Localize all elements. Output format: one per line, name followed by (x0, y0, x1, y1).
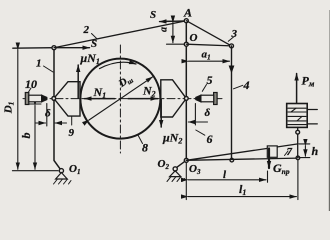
svg-text:1: 1 (36, 58, 42, 70)
dimension a1 (189, 60, 230, 62)
right jaw on lever 6 (161, 80, 187, 117)
svg-text:10: 10 (25, 77, 37, 91)
wire horizontal center axis (dash-dot) (23, 98, 222, 100)
link spring to lever 7 (297, 127, 299, 157)
label 6 (196, 130, 205, 135)
label 4 (234, 85, 243, 89)
ground O1 (59, 169, 63, 173)
adjusting screw 5 (196, 93, 217, 105)
link 3 (A to right node) (186, 21, 231, 46)
dimension b (34, 106, 36, 170)
force muN1 arrow (77, 65, 79, 98)
adjusting screw 10 (25, 93, 47, 105)
svg-text:a: a (159, 27, 170, 32)
dimension h (299, 144, 310, 158)
lever 7 bottom edge (186, 158, 298, 160)
force G_pr arrow (268, 149, 270, 169)
svg-text:9: 9 (69, 127, 75, 139)
svg-text:4: 4 (243, 78, 250, 92)
band 2 (rope to A) (54, 21, 186, 48)
node link4 bottom (230, 158, 234, 162)
spring dynamometer housing (287, 104, 308, 128)
node lever 7 right end (296, 156, 300, 160)
svg-text:O: O (190, 32, 198, 44)
lever 1 (left vertical lever) (54, 48, 61, 171)
node A (184, 19, 188, 23)
lever 7 top edge (186, 144, 298, 160)
svg-text:8: 8 (142, 141, 148, 155)
node right of O (230, 44, 234, 48)
svg-text:S: S (150, 9, 156, 21)
label 5 (202, 85, 206, 92)
spring side hooks (307, 109, 317, 111)
force P_m arrow (296, 74, 298, 104)
dimension l (188, 171, 268, 182)
force N1 arrow (85, 98, 115, 100)
svg-text:2: 2 (83, 24, 90, 36)
dimension D_sh (wheel diameter arrow) (89, 77, 153, 120)
weight slider on lever 7 (267, 146, 277, 157)
label 8 (138, 135, 143, 144)
node left jaw joint (52, 97, 56, 101)
strut A-O-O3 (vertical line x=186) (185, 21, 187, 161)
dimension l1 (186, 160, 298, 200)
dimension a (166, 21, 184, 44)
svg-text:δ: δ (45, 108, 51, 120)
node top of lever 1 (52, 46, 56, 50)
label 7 (285, 151, 289, 156)
svg-text:A: A (183, 6, 192, 20)
svg-text:3: 3 (231, 28, 238, 40)
label 1 (44, 66, 54, 72)
svg-text:7: 7 (287, 146, 293, 158)
svg-text:6: 6 (207, 132, 213, 146)
left jaw on lever 1 (54, 82, 80, 116)
scan edge artifacts (329, 130, 330, 211)
svg-text:b: b (19, 133, 33, 139)
dimension delta left (35, 104, 67, 127)
node right jaw joint (184, 97, 188, 101)
force N2 arrow (128, 98, 158, 100)
link 4 (right vertical link) (231, 46, 233, 160)
label 10 (29, 88, 32, 92)
label 9 (71, 117, 73, 126)
wire vertical center axis (dash-dot) (119, 45, 121, 153)
ground O2 (177, 160, 187, 167)
friction wheel 8 (80, 59, 160, 139)
force S arrow (at lever 1 top) (56, 47, 90, 49)
label 3 (228, 37, 234, 42)
node O (184, 42, 188, 46)
svg-text:h: h (312, 144, 319, 158)
dimension delta right (188, 104, 207, 126)
node O3 (184, 158, 188, 162)
svg-text:δ: δ (205, 107, 211, 119)
wire top-left horizontal (13, 47, 54, 50)
dimension D1 (left overall) (17, 50, 19, 170)
rotation direction arrow (100, 62, 137, 68)
label 2 (92, 34, 98, 39)
svg-text:5: 5 (207, 73, 213, 87)
wire O to right node (186, 44, 231, 46)
node spring bottom (296, 130, 300, 134)
wire bottom-left baseline (13, 170, 59, 172)
force S arrow (at A) (160, 20, 187, 23)
svg-text:S: S (91, 38, 97, 50)
force muN2 arrow (160, 99, 162, 127)
